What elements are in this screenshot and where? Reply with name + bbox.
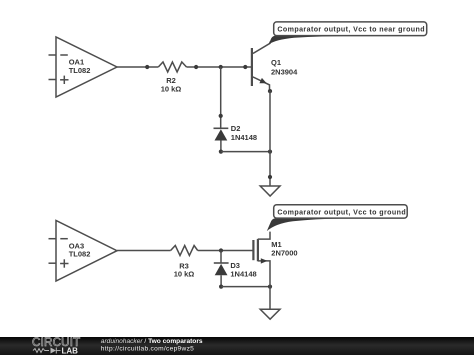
resistor R3 (171, 246, 198, 256)
wire (269, 287, 271, 310)
svg-text:arduinohacker / Two comparator: arduinohacker / Two comparators (101, 338, 203, 345)
junction (219, 285, 223, 289)
callout: Comparator output, Vcc to ground (267, 205, 407, 231)
wire (269, 91, 271, 152)
junction (145, 65, 149, 69)
wire (220, 251, 222, 264)
svg-text:2N7000: 2N7000 (271, 249, 297, 258)
svg-text:TL082: TL082 (69, 66, 91, 75)
svg-text:2N3904: 2N3904 (271, 68, 298, 77)
svg-text:Comparator output, Vcc to grou: Comparator output, Vcc to ground (277, 208, 406, 216)
wire (117, 66, 158, 68)
junction (243, 65, 247, 69)
svg-text:LAB: LAB (62, 346, 79, 355)
diode D3 (214, 263, 229, 287)
junction (194, 65, 198, 69)
junction (219, 248, 223, 252)
wire (198, 250, 254, 252)
wire (220, 67, 222, 128)
label OA3 TL082 (69, 242, 91, 259)
label Q1 2N3904 (271, 58, 298, 77)
wire (269, 152, 271, 186)
junction (219, 65, 223, 69)
junction (219, 150, 223, 154)
wire (117, 250, 171, 252)
transistor M1 (253, 232, 270, 287)
junction (268, 89, 272, 93)
transistor Q1 (252, 42, 270, 92)
label R2 10 kΩ (161, 76, 182, 93)
junction (219, 114, 223, 118)
junction (268, 150, 272, 154)
label M1 2N7000 (271, 240, 297, 257)
svg-text:Q1: Q1 (271, 58, 281, 67)
callout: Comparator output, Vcc to near ground (269, 22, 427, 44)
footer logo CIRCUITLAB (32, 336, 80, 355)
wire (221, 151, 270, 153)
junction (268, 175, 272, 179)
ground (260, 186, 280, 196)
label OA1 TL082 (69, 58, 91, 75)
resistor R2 (158, 62, 186, 72)
junction (268, 285, 272, 289)
svg-text:1N4148: 1N4148 (231, 133, 257, 142)
label R3 10 kΩ (174, 261, 195, 278)
svg-text:http://circuitlab.com/cep9wz5: http://circuitlab.com/cep9wz5 (101, 346, 194, 353)
svg-text:Comparator output, Vcc to near: Comparator output, Vcc to near ground (277, 26, 425, 34)
svg-text:10 kΩ: 10 kΩ (161, 85, 182, 94)
svg-text:10 kΩ: 10 kΩ (174, 270, 195, 279)
label D3 1N4148 (230, 261, 256, 279)
wire (221, 286, 270, 288)
label D2 1N4148 (231, 124, 257, 142)
svg-text:1N4148: 1N4148 (230, 269, 256, 278)
ground (260, 309, 280, 319)
svg-text:TL082: TL082 (69, 250, 91, 259)
wire (187, 66, 252, 68)
diode D2 (214, 128, 229, 151)
op-amp OA3 (49, 221, 118, 282)
op-amp OA1 (49, 37, 118, 97)
footer title text (101, 338, 203, 353)
footer bar (0, 337, 474, 355)
